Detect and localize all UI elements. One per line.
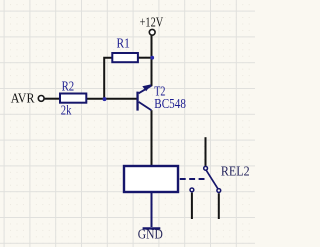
- resistor R2: [60, 94, 86, 103]
- wire switch NC contact bottom left: [191, 193, 193, 219]
- junction dot at R1/+12V rail: [150, 56, 154, 60]
- wire R2 right to transistor base: [86, 98, 138, 100]
- switch arm: [206, 170, 218, 188]
- ground bar: [143, 227, 161, 229]
- wire R1 right stub to +12V rail: [138, 57, 152, 59]
- wire switch common top: [205, 137, 207, 166]
- switch right contact circle: [217, 189, 221, 193]
- power terminal +12V circle: [149, 29, 155, 35]
- svg-text:+12V: +12V: [140, 15, 164, 30]
- junction dot at base node: [103, 97, 107, 101]
- svg-text:2k: 2k: [61, 102, 72, 117]
- relay actuation dashed link: [180, 178, 205, 180]
- wire AVR terminal to R2 left: [45, 98, 61, 100]
- switch left contact circle: [190, 188, 194, 192]
- svg-text:R2: R2: [62, 79, 75, 94]
- svg-text:R1: R1: [117, 36, 130, 51]
- wire relay coil bottom to ground: [151, 193, 153, 228]
- transistor T2 base bar: [136, 92, 138, 111]
- wire transistor emitter down to relay coil top: [151, 110, 153, 165]
- resistor R1: [112, 53, 138, 62]
- wire +12V rail down to transistor collector: [151, 36, 153, 87]
- switch common contact circle: [204, 166, 208, 170]
- svg-text:REL2: REL2: [221, 163, 250, 178]
- svg-text:AVR: AVR: [11, 91, 35, 106]
- relay coil: [124, 166, 178, 192]
- transistor T2 emitter diagonal: [139, 102, 152, 110]
- transistor T2 collector diagonal with arrow: [139, 86, 152, 94]
- wire switch NO contact bottom right: [218, 193, 220, 219]
- svg-text:GND: GND: [138, 227, 163, 242]
- svg-text:BC548: BC548: [154, 96, 186, 111]
- wire vertical from base junction up to R1 left stub: [104, 58, 112, 99]
- input terminal AVR circle: [38, 96, 44, 102]
